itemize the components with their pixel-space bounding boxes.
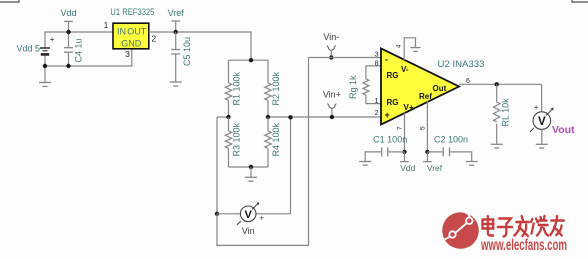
svg-text:R4 100k: R4 100k xyxy=(271,122,281,156)
svg-text:Vin-: Vin- xyxy=(323,32,339,42)
svg-text:U1 REF3325: U1 REF3325 xyxy=(110,7,154,17)
svg-text:C2 100n: C2 100n xyxy=(434,134,468,144)
svg-text:Out: Out xyxy=(433,84,447,93)
svg-text:Vref: Vref xyxy=(168,8,185,18)
svg-text:www.elecfans.com: www.elecfans.com xyxy=(480,237,567,254)
svg-text:V+: V+ xyxy=(404,103,414,112)
svg-text:U2 INA333: U2 INA333 xyxy=(438,59,485,69)
svg-text:+: + xyxy=(534,103,539,112)
svg-text:1: 1 xyxy=(104,20,109,30)
svg-text:Vdd 5: Vdd 5 xyxy=(16,44,40,54)
svg-text:8: 8 xyxy=(375,61,379,68)
svg-text:1: 1 xyxy=(375,98,379,105)
svg-text:+: + xyxy=(50,35,55,44)
svg-text:2: 2 xyxy=(152,34,157,44)
svg-text:RL 10k: RL 10k xyxy=(501,98,511,127)
svg-text:Vin+: Vin+ xyxy=(323,90,341,100)
svg-text:-: - xyxy=(385,55,388,65)
svg-text:V-: V- xyxy=(401,65,409,74)
svg-text:3: 3 xyxy=(375,52,379,59)
svg-text:+: + xyxy=(385,110,390,120)
svg-text:R1 100k: R1 100k xyxy=(232,71,242,105)
svg-text:OUT: OUT xyxy=(127,27,147,37)
svg-text:2: 2 xyxy=(375,110,379,117)
svg-text:+: + xyxy=(260,214,265,223)
svg-text:RG: RG xyxy=(387,71,399,80)
svg-text:Vin: Vin xyxy=(242,226,255,236)
svg-text:Ref: Ref xyxy=(419,92,432,101)
svg-text:Vref: Vref xyxy=(427,163,443,173)
svg-text:IN: IN xyxy=(117,27,126,37)
svg-text:Vdd: Vdd xyxy=(400,163,415,173)
svg-text:C5 10u: C5 10u xyxy=(182,37,192,66)
svg-text:Rg 1k: Rg 1k xyxy=(348,75,358,99)
svg-text:C4 1u: C4 1u xyxy=(74,38,84,62)
svg-text:3: 3 xyxy=(125,49,130,59)
svg-text:R3 100k: R3 100k xyxy=(232,122,242,156)
svg-text:4: 4 xyxy=(396,44,403,48)
svg-text:Vdd: Vdd xyxy=(60,8,76,18)
svg-text:RG: RG xyxy=(387,98,399,107)
svg-text:5: 5 xyxy=(420,126,427,130)
svg-text:7: 7 xyxy=(397,126,404,130)
svg-text:Vout: Vout xyxy=(552,124,575,136)
svg-text:V: V xyxy=(538,116,546,128)
svg-text:V: V xyxy=(245,209,253,221)
svg-text:R2 100k: R2 100k xyxy=(271,71,281,105)
svg-text:GND: GND xyxy=(121,39,142,49)
svg-text:C1 100n: C1 100n xyxy=(373,134,407,144)
